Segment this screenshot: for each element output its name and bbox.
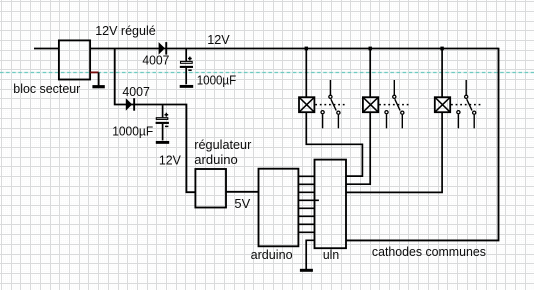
switch lever K2	[395, 99, 400, 110]
contact terminal NC K2	[385, 111, 388, 114]
relay K2	[363, 47, 411, 129]
wire NC contact K3	[457, 114, 459, 128]
wire coil feed K3	[441, 49, 443, 98]
svg-text:cathodes communes: cathodes communes	[372, 244, 486, 259]
svg-text:régulateur: régulateur	[194, 137, 252, 152]
wire relay2 to uln	[346, 112, 370, 185]
pin rungs arduino-uln	[298, 176, 319, 232]
wire NC contact K1	[322, 114, 324, 128]
mechanical link (dotted) K1	[315, 104, 347, 106]
arduino box	[259, 169, 299, 247]
svg-text:4007: 4007	[122, 84, 149, 99]
svg-text:12V: 12V	[159, 152, 181, 167]
capacitor C2 1000uF	[156, 105, 170, 142]
wire pin 7 arduino to uln	[298, 223, 314, 225]
contact terminal NC K1	[321, 111, 324, 114]
wire cathodes right vertical	[346, 48, 499, 241]
contact terminal NO K3	[473, 111, 476, 114]
junction node relay K2 on 12V rail	[369, 47, 372, 51]
wire 5V regulator to arduino	[226, 191, 259, 193]
mechanical link (dotted) K2	[379, 104, 411, 106]
wire coil feed K2	[369, 49, 371, 98]
svg-text:12V: 12V	[207, 32, 230, 47]
wire pin 6 arduino to uln	[298, 215, 314, 217]
diode D1 4007	[159, 42, 168, 55]
wire pin 3 arduino to uln	[298, 191, 314, 193]
wire relay1 to uln	[306, 112, 362, 177]
mechanical link (dotted) K3	[451, 104, 483, 106]
wire relay3 to uln	[346, 112, 442, 193]
svg-text:arduino: arduino	[194, 152, 238, 167]
svg-text:bloc secteur: bloc secteur	[13, 81, 81, 96]
ground under uln	[300, 240, 315, 270]
regulator box U1	[195, 169, 226, 208]
relay K1	[299, 47, 347, 129]
wire 12V rail top	[90, 48, 498, 50]
wire pin 5 arduino to uln	[298, 207, 314, 209]
capacitor C1 1000uF	[180, 49, 194, 86]
bloc secteur box	[59, 40, 90, 79]
wire common contact K1	[329, 80, 331, 95]
wire pin 8 arduino to uln	[298, 231, 314, 233]
relay coil box K3	[435, 97, 450, 112]
wire NC contact K2	[386, 114, 388, 128]
svg-text:12V régulé: 12V régulé	[95, 23, 156, 38]
wire common contact K3	[465, 80, 467, 95]
wire NO contact K1	[337, 115, 339, 128]
wire coil feed K1	[305, 49, 307, 98]
svg-text:4007: 4007	[142, 53, 169, 68]
contact terminal common K2	[393, 95, 396, 98]
junction node relay K3 on 12V rail	[440, 47, 443, 51]
contact terminal NO K1	[337, 111, 340, 114]
ground bloc secteur	[98, 72, 100, 85]
dashed page-break guide line	[0, 72, 534, 74]
wire pin 1 arduino to uln	[298, 175, 314, 177]
svg-text:arduino: arduino	[251, 247, 293, 262]
relay coil box K1	[299, 97, 314, 112]
wire NO contact K3	[473, 115, 475, 128]
wire pin 2 arduino to uln	[298, 183, 314, 185]
relay coil box K2	[363, 97, 378, 112]
wire maroon stub to ground	[90, 71, 98, 73]
wire branch to second diode	[115, 49, 196, 193]
wire NO contact K2	[401, 115, 403, 128]
wire input left	[34, 48, 59, 50]
uln box	[315, 160, 347, 249]
switch lever K3	[467, 99, 472, 110]
svg-text:uln: uln	[323, 247, 339, 262]
diode D2 4007	[126, 98, 135, 111]
contact terminal common K1	[329, 95, 332, 98]
junction node relay K1 on 12V rail	[305, 47, 308, 51]
relay K3	[435, 47, 483, 129]
svg-text:1000µF: 1000µF	[112, 124, 153, 139]
switch lever K1	[331, 99, 336, 110]
contact terminal common K3	[465, 95, 468, 98]
svg-text:1000µF: 1000µF	[197, 73, 237, 88]
contact terminal NO K2	[401, 111, 404, 114]
contact terminal NC K3	[457, 111, 460, 114]
wire pin 4 arduino to uln	[298, 199, 319, 201]
wire common contact K2	[393, 80, 395, 95]
svg-text:5V: 5V	[234, 196, 250, 211]
